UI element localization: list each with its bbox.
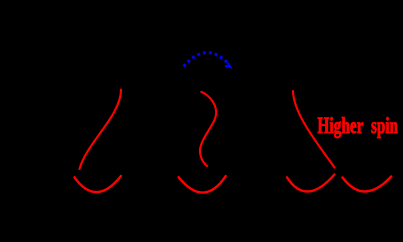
center potential curve (200, 92, 216, 166)
valley U1 (74, 176, 121, 192)
svg-text:Higher: Higher (317, 114, 363, 139)
arrowhead of blue arc (225, 63, 230, 67)
valley U3 (287, 175, 335, 192)
valley U2 (179, 176, 226, 193)
svg-text:spin: spin (371, 114, 398, 139)
blue dotted transition arc (184, 53, 228, 67)
right potential curve (293, 91, 335, 168)
left potential curve (80, 90, 122, 170)
valley U4 (343, 177, 392, 192)
